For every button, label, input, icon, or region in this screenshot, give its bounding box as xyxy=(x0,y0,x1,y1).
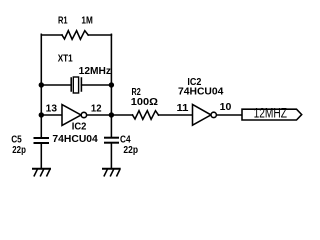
svg-text:10: 10 xyxy=(220,102,232,113)
op-amp U1 gate IC2 inverter 1 xyxy=(62,105,87,126)
svg-text:11: 11 xyxy=(177,103,189,114)
svg-text:12: 12 xyxy=(91,104,102,115)
svg-text:22p: 22p xyxy=(12,145,26,156)
capacitor C4 xyxy=(105,138,118,143)
wire left vertical xyxy=(40,34,42,137)
wire R2 left xyxy=(111,114,132,116)
wire left vertical below C5 xyxy=(40,144,42,169)
resistor R1 xyxy=(62,31,88,40)
capacitor C5 xyxy=(35,138,49,143)
wire crystal left xyxy=(41,84,71,86)
svg-text:1M: 1M xyxy=(81,16,92,27)
svg-text:IC2: IC2 xyxy=(72,122,87,133)
wire crystal right xyxy=(82,84,112,86)
svg-text:C5: C5 xyxy=(11,134,22,145)
svg-text:12MHz: 12MHz xyxy=(79,66,111,77)
node junction at crystal right xyxy=(109,82,114,87)
svg-text:74HCU04: 74HCU04 xyxy=(178,87,224,98)
node junction at inverter1 output xyxy=(109,112,114,117)
net flag 12MHZ xyxy=(242,109,302,120)
node junction at inverter1 input xyxy=(39,112,44,117)
wire inverter2 output xyxy=(217,114,242,116)
ground under C4 xyxy=(103,169,120,176)
ground under C5 xyxy=(33,169,50,176)
svg-text:22p: 22p xyxy=(123,145,138,156)
wire right vertical xyxy=(110,34,112,137)
svg-text:R2: R2 xyxy=(132,87,142,98)
svg-text:XT1: XT1 xyxy=(58,54,73,65)
svg-text:C4: C4 xyxy=(120,134,131,145)
op-amp U2 gate IC2 inverter 2 xyxy=(193,105,217,126)
svg-text:13: 13 xyxy=(46,104,58,115)
wire inverter1 output xyxy=(87,114,112,116)
wire top right segment xyxy=(88,34,111,36)
wire inverter1 input xyxy=(41,114,62,116)
wire top left segment xyxy=(41,34,62,36)
crystal XT1 xyxy=(71,77,81,93)
svg-text:100Ω: 100Ω xyxy=(131,97,158,108)
svg-text:R1: R1 xyxy=(58,16,68,27)
wire right vertical below C4 xyxy=(110,143,112,168)
wire R2 right xyxy=(159,114,193,116)
resistor R2 xyxy=(133,111,159,120)
node junction at crystal left xyxy=(39,82,44,87)
svg-text:12MHZ: 12MHZ xyxy=(254,104,288,120)
svg-text:74HCU04: 74HCU04 xyxy=(52,134,98,145)
